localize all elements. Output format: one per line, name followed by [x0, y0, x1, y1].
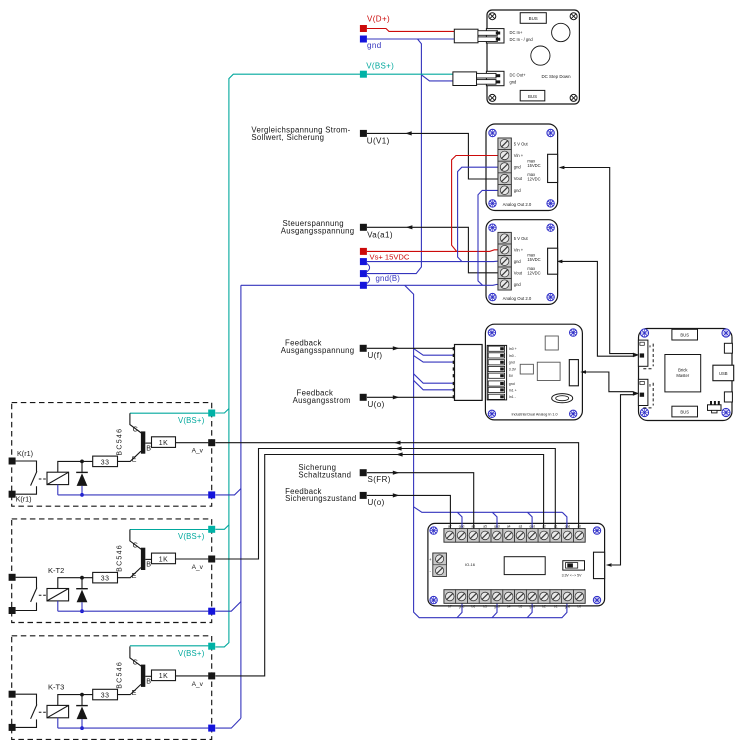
- svg-text:Vout: Vout: [514, 270, 523, 275]
- svg-text:V(BS+): V(BS+): [178, 649, 205, 658]
- svg-text:Sicherungszustand: Sicherungszustand: [285, 494, 356, 503]
- svg-text:gnd: gnd: [514, 282, 522, 287]
- svg-text:Analog Out 2.0: Analog Out 2.0: [503, 296, 532, 301]
- svg-text:a6: a6: [472, 524, 476, 528]
- svg-text:U(o): U(o): [368, 400, 385, 409]
- svg-text:DC In+: DC In+: [510, 30, 523, 35]
- svg-text:gnd: gnd: [459, 605, 465, 609]
- svg-text:a2: a2: [542, 524, 546, 528]
- svg-text:gnd: gnd: [529, 524, 535, 528]
- svg-text:b1: b1: [554, 605, 558, 609]
- svg-text:5 V Out: 5 V Out: [514, 141, 529, 146]
- svg-text:BUS: BUS: [529, 16, 538, 21]
- svg-text:b6: b6: [472, 605, 476, 609]
- svg-text:V(BS+): V(BS+): [178, 416, 205, 425]
- svg-text:BC546: BC546: [117, 544, 124, 572]
- svg-text:Ausgangsspannung: Ausgangsspannung: [281, 346, 355, 355]
- svg-text:Vin +: Vin +: [514, 153, 524, 158]
- svg-text:Ausgangsstrom: Ausgangsstrom: [293, 396, 351, 405]
- svg-text:C: C: [133, 541, 138, 550]
- svg-text:gnd: gnd: [509, 361, 515, 365]
- svg-text:A_v: A_v: [192, 448, 204, 455]
- svg-text:b2: b2: [542, 605, 546, 609]
- svg-text:12VDC: 12VDC: [527, 271, 540, 276]
- svg-text:Schaltzustand: Schaltzustand: [298, 470, 351, 479]
- svg-text:BUS: BUS: [528, 94, 537, 99]
- svg-text:15VDC: 15VDC: [527, 163, 540, 168]
- svg-text:K(r1): K(r1): [17, 449, 33, 458]
- svg-text:Va(a1): Va(a1): [367, 230, 393, 239]
- svg-text:gnd(B): gnd(B): [376, 274, 401, 283]
- svg-text:U(o): U(o): [368, 498, 385, 507]
- svg-text:DC Step Down: DC Step Down: [542, 74, 572, 79]
- svg-text:E: E: [132, 571, 137, 580]
- svg-text:a3: a3: [519, 524, 523, 528]
- svg-text:In0 +: In0 +: [509, 347, 517, 351]
- svg-text:gnd: gnd: [494, 605, 500, 609]
- svg-text:gnd: gnd: [459, 524, 465, 528]
- svg-text:Master: Master: [676, 373, 689, 378]
- svg-text:1K: 1K: [159, 440, 168, 447]
- svg-text:C: C: [133, 424, 138, 433]
- svg-text:E: E: [132, 688, 137, 697]
- svg-text:b3: b3: [519, 605, 523, 609]
- svg-text:1K: 1K: [159, 556, 168, 563]
- svg-text:K(r1): K(r1): [16, 495, 32, 504]
- svg-text:K-T3: K-T3: [48, 682, 64, 691]
- svg-text:a1: a1: [554, 524, 558, 528]
- svg-text:U(f): U(f): [368, 351, 383, 360]
- svg-text:3.3V: 3.3V: [509, 367, 517, 371]
- svg-text:B: B: [146, 677, 151, 686]
- svg-text:Ausgangsspannung: Ausgangsspannung: [281, 227, 355, 236]
- svg-text:V(BS+): V(BS+): [366, 62, 394, 71]
- svg-text:A_v: A_v: [192, 564, 204, 571]
- svg-text:33: 33: [101, 459, 110, 466]
- svg-text:S(FR): S(FR): [368, 475, 391, 484]
- svg-text:A_v: A_v: [192, 681, 204, 688]
- svg-text:In1 +: In1 +: [509, 388, 517, 392]
- svg-text:5 V Out: 5 V Out: [514, 236, 529, 241]
- svg-text:Industrial Dual Analog In 1.0: Industrial Dual Analog In 1.0: [511, 412, 557, 416]
- svg-text:V(D+): V(D+): [367, 15, 390, 24]
- svg-text:Vout: Vout: [514, 176, 523, 181]
- svg-text:b7: b7: [448, 605, 452, 609]
- svg-text:DC In - / gnd: DC In - / gnd: [510, 37, 534, 42]
- svg-text:Vs+ 15VDC: Vs+ 15VDC: [370, 252, 410, 261]
- svg-text:V(BS+): V(BS+): [178, 532, 205, 541]
- svg-text:BC546: BC546: [117, 661, 124, 689]
- svg-text:gnd: gnd: [529, 605, 535, 609]
- svg-text:gnd: gnd: [367, 41, 382, 50]
- svg-text:gnd: gnd: [494, 524, 500, 528]
- svg-text:BUS: BUS: [680, 410, 689, 415]
- svg-text:Analog Out 2.0: Analog Out 2.0: [503, 202, 532, 207]
- svg-text:B: B: [146, 560, 151, 569]
- svg-text:3.3V <--> 5V: 3.3V <--> 5V: [562, 574, 583, 578]
- svg-text:K-T2: K-T2: [48, 566, 64, 575]
- svg-text:33: 33: [101, 693, 110, 700]
- svg-text:BC546: BC546: [117, 428, 124, 456]
- svg-text:B: B: [146, 443, 151, 452]
- svg-text:a5: a5: [483, 524, 487, 528]
- svg-text:b0: b0: [577, 605, 581, 609]
- svg-text:gnd: gnd: [514, 165, 522, 170]
- svg-text:BUS: BUS: [680, 333, 689, 338]
- svg-text:12VDC: 12VDC: [527, 177, 540, 182]
- svg-text:Vin +: Vin +: [514, 247, 524, 252]
- svg-text:a0: a0: [577, 524, 581, 528]
- svg-text:IO-16: IO-16: [465, 562, 476, 567]
- svg-text:b4: b4: [507, 605, 511, 609]
- svg-text:gnd: gnd: [510, 79, 518, 84]
- svg-text:5V: 5V: [509, 374, 514, 378]
- svg-text:gnd: gnd: [514, 188, 522, 193]
- svg-text:15VDC: 15VDC: [527, 257, 540, 262]
- svg-text:gnd: gnd: [514, 259, 522, 264]
- svg-text:gnd: gnd: [509, 382, 515, 386]
- svg-text:gnd: gnd: [565, 605, 571, 609]
- svg-text:1K: 1K: [159, 673, 168, 680]
- svg-text:In1 -: In1 -: [509, 395, 517, 399]
- svg-text:DC Out+: DC Out+: [510, 73, 527, 78]
- svg-text:USB: USB: [719, 371, 728, 376]
- svg-text:U(V1): U(V1): [367, 137, 390, 146]
- svg-text:gnd: gnd: [565, 524, 571, 528]
- svg-text:In0 -: In0 -: [509, 354, 517, 358]
- svg-text:C: C: [133, 658, 138, 667]
- svg-text:a4: a4: [507, 524, 511, 528]
- svg-text:b5: b5: [483, 605, 487, 609]
- svg-text:E: E: [132, 455, 137, 464]
- svg-text:Sollwert, Sicherung: Sollwert, Sicherung: [251, 133, 324, 142]
- svg-text:Brick: Brick: [678, 368, 688, 373]
- svg-text:33: 33: [101, 576, 110, 583]
- svg-text:a7: a7: [448, 524, 452, 528]
